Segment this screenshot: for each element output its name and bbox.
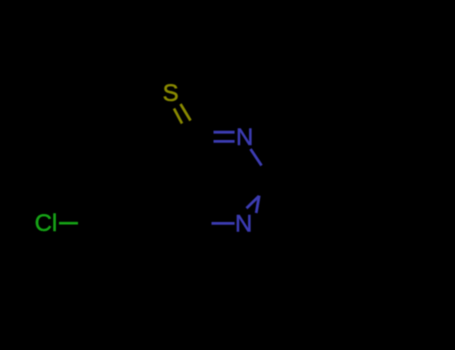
bond N3-C2 single bond (nitrogen half, blue) — [251, 149, 262, 166]
bond N1-C8a single bond (nitrogen half, blue) — [212, 222, 235, 225]
svg-text:N: N — [236, 124, 253, 151]
bond C4=S double bond (sulfur half, olive) — [174, 104, 191, 124]
svg-text:S: S — [163, 80, 179, 107]
bond C2=N1 double bond (nitrogen half, blue) — [247, 196, 260, 213]
svg-text:N: N — [235, 211, 252, 238]
bond Cl-C6 single bond (chlorine half, green) — [59, 222, 78, 225]
bond C4=N3 double bond (nitrogen half, blue) — [214, 132, 235, 141]
svg-text:Cl: Cl — [35, 210, 58, 237]
